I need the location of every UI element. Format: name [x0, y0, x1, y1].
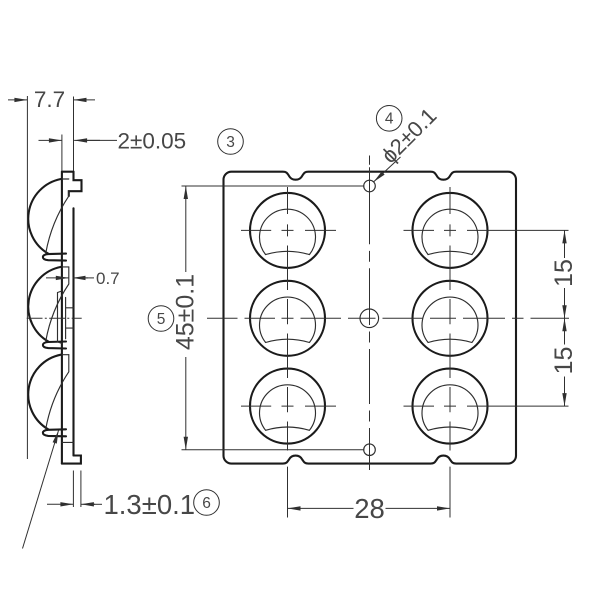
dimension 7.7: arrows and text — [8, 99, 27, 101]
dimension 28: dimension line with arrows — [288, 507, 354, 509]
lens A2 outer flange circle — [250, 281, 325, 356]
side view: lens dome 3 inner surface arc — [46, 355, 69, 429]
centerline: right lens column axis — [449, 187, 451, 451]
lens A1 outer flange circle — [250, 193, 325, 268]
extension line: wall left face above plate — [61, 135, 63, 172]
side view: lens 3 base foot — [43, 429, 66, 436]
svg-text:2±0.05: 2±0.05 — [118, 129, 187, 154]
leader arrow to phi2 hole — [374, 157, 401, 182]
centerline: plate vertical axis through holes — [369, 156, 371, 471]
svg-text:15: 15 — [550, 259, 578, 287]
dimension 28: extension lines — [287, 467, 289, 518]
dimension 2+-0.05: arrows and text — [39, 139, 62, 141]
svg-text:15: 15 — [550, 347, 578, 375]
lens A1 inner dome outline — [260, 209, 316, 254]
side view: lens dome 2 attachment line — [62, 266, 69, 268]
mounting hole top (phi 2) — [364, 180, 376, 192]
side view: lens 1 base foot — [43, 254, 66, 261]
side view: lens dome 1 outer arc — [28, 179, 61, 254]
lens B2 outer flange circle — [413, 281, 488, 356]
side view: wall right face — [72, 208, 74, 455]
dimension 1.3+-0.1: arrows and text — [47, 503, 73, 505]
dimension 0.7: arrows and text — [46, 277, 69, 279]
svg-text:5: 5 — [157, 311, 166, 328]
svg-text:3: 3 — [226, 134, 235, 151]
side view: internal line at wall bottom — [62, 441, 74, 443]
extension lines: bottom tab for 1.3 dim — [72, 471, 74, 508]
leader arrow to lens base foot — [23, 431, 59, 549]
lens A2 inner dome outline — [260, 297, 316, 342]
centerline: left lens row y=406.1 — [241, 405, 336, 407]
front view: lens plate outline with corner radii and edge notches — [224, 172, 517, 464]
side view: wall left face — [61, 172, 63, 464]
side view: plate top edge — [62, 171, 74, 173]
balloon number 3 — [218, 129, 244, 155]
extension line: wall right face above plate — [73, 97, 75, 172]
svg-text:1.3±0.1: 1.3±0.1 — [104, 489, 196, 520]
svg-text:4: 4 — [385, 111, 394, 128]
side view: lens dome 1 attachment line — [62, 178, 69, 180]
lens B2 inner dome outline — [422, 297, 478, 342]
side view: lens 2 base foot — [43, 342, 66, 349]
side view: lens dome 2 outer arc — [28, 267, 61, 342]
lens B1 outer flange circle — [413, 193, 488, 268]
lens B3 outer flange circle — [413, 369, 488, 444]
dimension 45+-0.1: extension lines — [182, 185, 365, 187]
side view: top mounting tab — [69, 172, 82, 196]
dimension 15 (top): arrows — [564, 230, 566, 258]
center hole — [360, 309, 379, 328]
side view: lens dome 1 inner surface arc — [46, 191, 69, 253]
centerline: left lens column axis — [287, 187, 289, 451]
dimension 15 (bottom): arrows — [564, 318, 566, 344]
side view: bottom edge and bottom corner tab — [62, 456, 81, 464]
svg-text:0.7: 0.7 — [96, 269, 120, 288]
extension line: dome apex plane (7.7 dim) — [26, 96, 28, 459]
lens A3 inner dome outline — [260, 385, 316, 430]
lens A3 outer flange circle — [250, 369, 325, 444]
centerline: right lens row y=230.4 extended as extension line — [404, 229, 569, 231]
lens B3 inner dome outline — [422, 385, 478, 430]
balloon number 4 — [376, 106, 402, 132]
balloon number 6 — [194, 490, 220, 516]
side view: center hole in section — [66, 298, 74, 339]
svg-text:45±0.1: 45±0.1 — [172, 274, 200, 350]
svg-text:28: 28 — [354, 493, 385, 524]
svg-text:7.7: 7.7 — [34, 87, 65, 112]
mounting hole bottom — [364, 444, 376, 456]
lens B1 inner dome outline — [422, 209, 478, 254]
dimension 45+-0.1: dimension line with arrows — [185, 186, 187, 272]
centerline: left lens row y=230.4 — [241, 229, 336, 231]
balloon number 5 — [148, 306, 174, 332]
centerline: right lens row y=406.1 extended as extension line — [404, 405, 569, 407]
side view: lens dome 2 inner surface arc — [46, 267, 69, 341]
side view: lens dome 3 attachment line — [62, 354, 69, 356]
side view horizontal centerline — [27, 317, 82, 319]
side view: lens dome 3 outer arc — [28, 355, 61, 430]
svg-text:6: 6 — [202, 495, 211, 512]
side view: middle boss left edge — [58, 291, 62, 343]
centerline: plate horizontal axis (middle lens row) — [207, 317, 569, 319]
